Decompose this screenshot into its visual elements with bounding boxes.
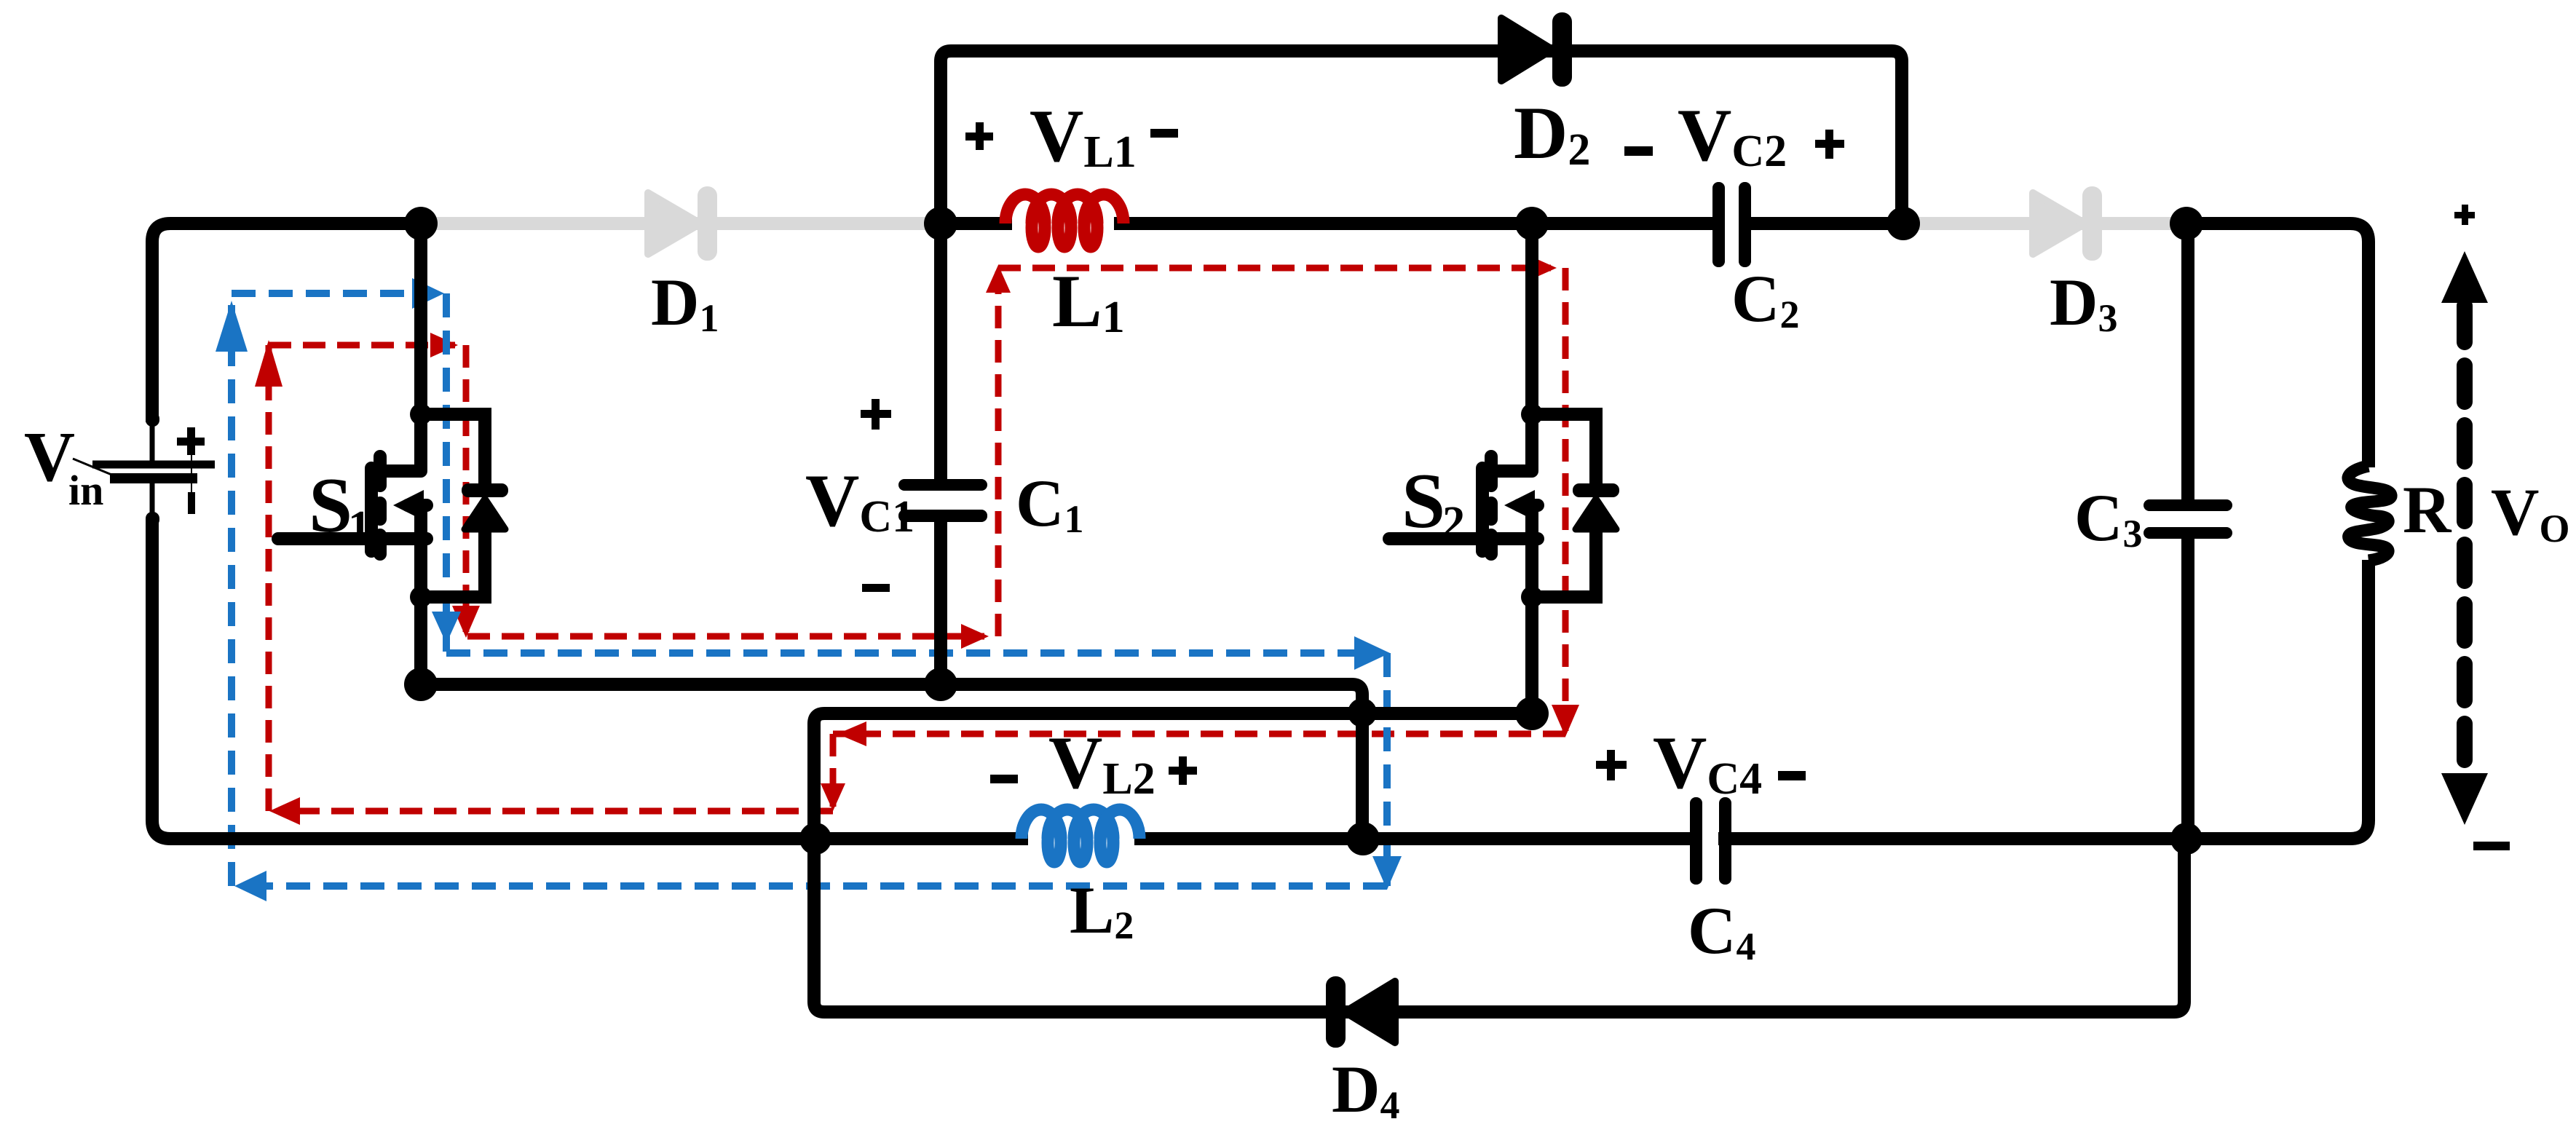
svg-text:R: R: [2403, 472, 2452, 547]
svg-text:V: V: [24, 418, 75, 496]
svg-text:in: in: [68, 467, 103, 514]
